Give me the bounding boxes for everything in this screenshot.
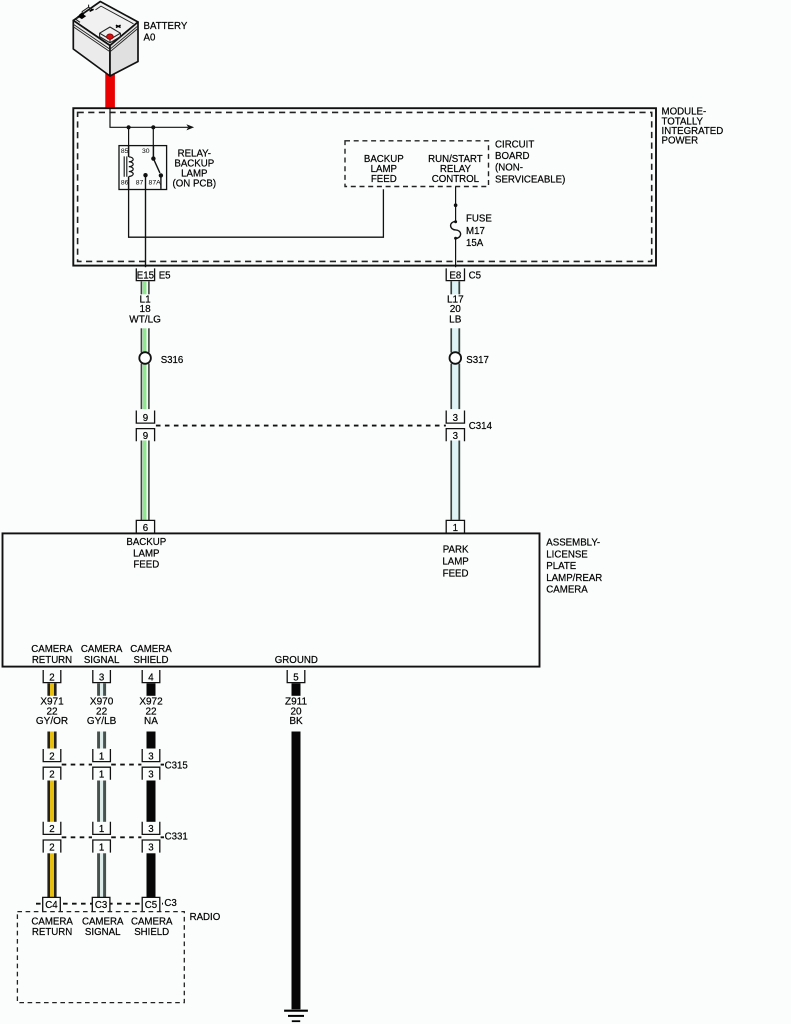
svg-text:BK: BK (289, 716, 303, 727)
svg-text:SERVICEABLE): SERVICEABLE) (495, 174, 565, 185)
svg-text:PLATE: PLATE (546, 561, 577, 572)
svg-text:CAMERA: CAMERA (31, 916, 73, 927)
svg-text:3: 3 (99, 672, 104, 683)
svg-text:LAMP/REAR: LAMP/REAR (546, 573, 602, 584)
svg-text:C4: C4 (45, 900, 58, 911)
svg-text:3: 3 (148, 824, 153, 835)
svg-text:CAMERA: CAMERA (130, 644, 172, 655)
svg-text:3: 3 (453, 431, 458, 442)
svg-text:86: 86 (121, 179, 129, 186)
svg-text:BATTERY: BATTERY (144, 21, 188, 32)
svg-text:LICENSE: LICENSE (546, 549, 588, 560)
svg-text:GY/OR: GY/OR (36, 716, 68, 727)
svg-text:3: 3 (148, 770, 153, 781)
svg-text:FEED: FEED (443, 569, 469, 580)
svg-text:9: 9 (143, 431, 148, 442)
svg-text:1: 1 (99, 751, 104, 762)
svg-text:15A: 15A (466, 238, 484, 249)
svg-text:A0: A0 (144, 33, 156, 44)
svg-text:C5: C5 (145, 900, 157, 911)
svg-text:E5: E5 (159, 271, 171, 282)
svg-text:C331: C331 (165, 832, 188, 843)
svg-text:BACKUP: BACKUP (126, 537, 166, 548)
svg-text:LAMP: LAMP (133, 548, 159, 559)
svg-text:9: 9 (143, 413, 148, 424)
svg-text:FEED: FEED (371, 174, 397, 185)
svg-text:C3: C3 (164, 898, 176, 909)
svg-text:5: 5 (293, 672, 298, 683)
svg-text:87: 87 (136, 179, 144, 186)
svg-text:C5: C5 (469, 271, 481, 282)
svg-text:WT/LG: WT/LG (129, 314, 161, 325)
svg-text:CAMERA: CAMERA (82, 916, 124, 927)
svg-text:1: 1 (453, 523, 458, 534)
svg-text:RETURN: RETURN (32, 927, 72, 938)
svg-text:1: 1 (99, 842, 104, 853)
svg-text:1: 1 (99, 770, 104, 781)
svg-text:CAMERA: CAMERA (81, 644, 123, 655)
svg-text:E8: E8 (449, 271, 461, 282)
svg-text:1: 1 (99, 824, 104, 835)
svg-text:S316: S316 (161, 355, 184, 366)
svg-text:2: 2 (49, 770, 54, 781)
svg-text:6: 6 (143, 523, 148, 534)
svg-text:2: 2 (49, 751, 54, 762)
svg-text:2: 2 (49, 824, 54, 835)
svg-text:2: 2 (49, 842, 54, 853)
svg-text:C315: C315 (165, 760, 188, 771)
svg-text:E15: E15 (137, 271, 154, 282)
svg-text:S317: S317 (466, 355, 489, 366)
svg-text:SIGNAL: SIGNAL (85, 927, 121, 938)
svg-text:3: 3 (148, 842, 153, 853)
svg-text:FUSE: FUSE (466, 213, 492, 224)
svg-text:SHIELD: SHIELD (134, 655, 169, 666)
svg-text:87A: 87A (149, 179, 162, 186)
svg-text:4: 4 (148, 672, 154, 683)
svg-text:CONTROL: CONTROL (432, 174, 480, 185)
svg-text:GY/LB: GY/LB (87, 716, 117, 727)
svg-text:FEED: FEED (133, 559, 159, 570)
svg-text:C314: C314 (469, 421, 493, 432)
svg-text:30: 30 (142, 148, 150, 155)
svg-text:CAMERA: CAMERA (131, 916, 173, 927)
svg-text:ASSEMBLY-: ASSEMBLY- (546, 538, 600, 549)
svg-text:2: 2 (49, 672, 54, 683)
svg-text:NA: NA (144, 716, 158, 727)
svg-text:PARK: PARK (443, 544, 469, 555)
svg-text:C3: C3 (95, 900, 107, 911)
svg-text:(ON PCB): (ON PCB) (173, 179, 217, 190)
svg-text:RETURN: RETURN (32, 655, 72, 666)
svg-text:SHIELD: SHIELD (134, 927, 169, 938)
svg-text:POWER: POWER (662, 136, 699, 147)
svg-text:3: 3 (148, 751, 153, 762)
svg-text:RADIO: RADIO (190, 912, 221, 923)
svg-text:LB: LB (449, 314, 462, 325)
svg-text:BOARD: BOARD (495, 151, 529, 162)
svg-text:SIGNAL: SIGNAL (84, 655, 120, 666)
svg-text:(NON-: (NON- (495, 163, 523, 174)
svg-text:CAMERA: CAMERA (546, 585, 588, 596)
svg-text:CIRCUIT: CIRCUIT (495, 140, 534, 151)
svg-text:GROUND: GROUND (275, 655, 318, 666)
svg-text:M17: M17 (466, 226, 485, 237)
svg-text:CAMERA: CAMERA (31, 644, 73, 655)
svg-text:3: 3 (453, 413, 458, 424)
svg-text:LAMP: LAMP (442, 557, 468, 568)
svg-text:85: 85 (121, 148, 129, 155)
